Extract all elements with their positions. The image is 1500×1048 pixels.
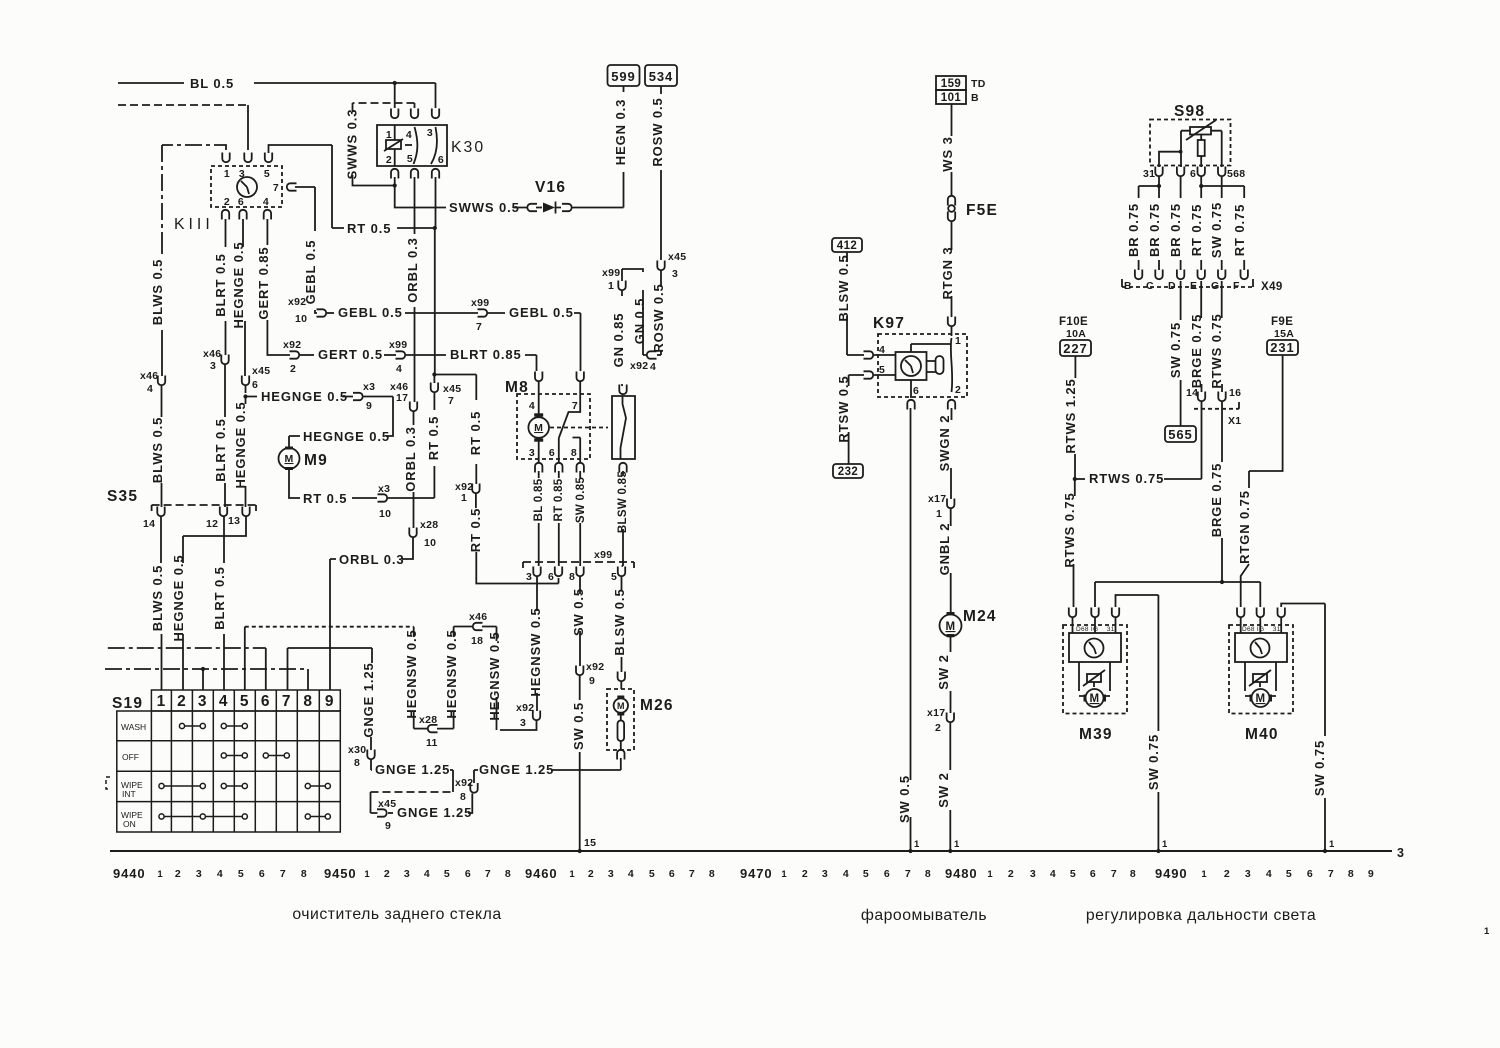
svg-text:5: 5 — [1070, 868, 1076, 880]
svg-text:4: 4 — [147, 383, 153, 395]
svg-text:ORBL 0.3: ORBL 0.3 — [339, 552, 404, 567]
terminal box 565 — [1165, 426, 1196, 442]
svg-text:1: 1 — [781, 869, 787, 880]
svg-text:6: 6 — [238, 196, 244, 208]
K111 pin 1 connector — [222, 153, 229, 163]
connector X92/9 — [576, 666, 583, 676]
wire BL 0.85 — [538, 471, 540, 478]
svg-text:RTWS 0.75: RTWS 0.75 — [1089, 471, 1164, 486]
svg-text:599: 599 — [611, 69, 635, 84]
connector X45/6 — [242, 376, 249, 386]
svg-text:3: 3 — [210, 360, 216, 372]
svg-text:HEGNGE 0.5: HEGNGE 0.5 — [233, 401, 248, 488]
svg-text:16: 16 — [1229, 387, 1241, 399]
svg-text:V16: V16 — [535, 179, 566, 196]
wire K111 pin1 bracket left — [162, 145, 226, 248]
svg-text:568: 568 — [1227, 168, 1245, 180]
svg-text:TD: TD — [971, 78, 986, 90]
svg-text:SW 0.5: SW 0.5 — [897, 775, 912, 823]
svg-text:HEGNSW 0.5: HEGNSW 0.5 — [487, 631, 502, 720]
svg-text:14: 14 — [1186, 387, 1198, 399]
svg-text:4: 4 — [650, 361, 656, 373]
connector X92/10 — [317, 309, 327, 316]
connector X28/11 — [428, 725, 438, 732]
svg-text:GN 0.85: GN 0.85 — [611, 313, 626, 368]
svg-text:SW 0.75: SW 0.75 — [1146, 734, 1161, 790]
M8 bottom pins — [535, 463, 542, 473]
actuator M40 — [1237, 608, 1244, 618]
svg-text:12: 12 — [206, 518, 218, 530]
svg-text:S35: S35 — [107, 488, 138, 505]
svg-text:13: 13 — [228, 515, 240, 527]
connector X92/3 — [533, 711, 540, 721]
connector X45/9 — [388, 812, 393, 814]
wire dashed feed to K111 pin3 — [118, 104, 248, 106]
svg-text:6: 6 — [438, 154, 444, 166]
svg-text:GNGE 1.25: GNGE 1.25 — [375, 762, 450, 777]
wire SW 0.85 — [579, 471, 581, 478]
svg-text:SW 0.75: SW 0.75 — [1168, 322, 1183, 378]
wire SW 0.75 to 565 — [1180, 281, 1182, 320]
svg-text:M: M — [284, 453, 293, 465]
svg-text:8: 8 — [301, 868, 307, 880]
K97 pin 6 bottom — [907, 400, 914, 410]
svg-text:x28: x28 — [420, 519, 438, 531]
K111 pin 3 connector — [244, 153, 251, 163]
svg-text:GNGE 1.25: GNGE 1.25 — [361, 662, 376, 737]
S19 contacts WIPE ON row — [159, 814, 331, 819]
wire SW 0.75 M40 to bus — [1281, 604, 1325, 737]
wire GN 0.85 to M8 park switch — [621, 291, 623, 386]
connector X3/9 — [353, 393, 363, 400]
svg-text:5: 5 — [611, 571, 617, 583]
svg-text:8: 8 — [303, 693, 313, 710]
K111 pin 4 connector — [264, 210, 271, 220]
svg-text:BLSW 0.5: BLSW 0.5 — [612, 588, 627, 655]
wire HEGNSW 0.5 chain col2 — [453, 627, 455, 638]
lamp M26 — [607, 689, 634, 750]
svg-text:x46: x46 — [140, 370, 158, 382]
wire HEGNGE 0.5 column (S19 col2) — [243, 219, 245, 376]
svg-text:C: C — [1146, 280, 1154, 292]
svg-text:3: 3 — [404, 868, 410, 880]
K30 contact arm 4-5 — [414, 127, 418, 164]
svg-text:HEGNSW 0.5: HEGNSW 0.5 — [444, 629, 459, 718]
svg-text:D68 IG 31: D68 IG 31 — [1242, 626, 1281, 633]
connector X1/16 — [1218, 392, 1225, 402]
motor M24 — [940, 615, 962, 637]
svg-text:1: 1 — [1162, 839, 1168, 850]
M8 park switch box — [612, 396, 635, 459]
svg-text:x30: x30 — [348, 744, 366, 756]
svg-text:M: M — [534, 422, 543, 434]
svg-text:8: 8 — [1348, 868, 1354, 880]
svg-text:565: 565 — [1168, 427, 1192, 442]
svg-text:BLSW 0.5: BLSW 0.5 — [836, 254, 851, 321]
node RT junction — [432, 372, 436, 376]
svg-text:SW 2: SW 2 — [936, 654, 951, 689]
wire BLSW 0.5 to M26 — [621, 577, 623, 590]
wire M9 to RT 0.5 — [289, 470, 377, 498]
wire GERT 0.85 from K111 pin4 — [267, 219, 290, 355]
svg-text:8: 8 — [571, 447, 577, 459]
svg-text:534: 534 — [649, 69, 673, 84]
wire BLRT 0.5 column (S19 col4) — [225, 219, 227, 355]
svg-text:M40: M40 — [1245, 726, 1279, 743]
K111 pin 5 connector — [265, 153, 272, 163]
svg-text:фароомыватель: фароомыватель — [861, 907, 987, 924]
svg-text:4: 4 — [263, 196, 269, 208]
svg-text:7: 7 — [273, 182, 279, 194]
svg-text:BLRT 0.85: BLRT 0.85 — [450, 347, 522, 362]
svg-text:3: 3 — [239, 168, 245, 180]
svg-text:8: 8 — [354, 757, 360, 769]
S98 pins — [1155, 167, 1162, 177]
svg-text:M26: M26 — [640, 697, 674, 714]
svg-text:5: 5 — [407, 153, 413, 165]
svg-text:9: 9 — [325, 693, 335, 710]
svg-text:8: 8 — [709, 868, 715, 880]
connector X92/2 — [290, 351, 300, 358]
svg-text:8: 8 — [569, 571, 575, 583]
svg-text:3: 3 — [520, 717, 526, 729]
svg-text:1: 1 — [1484, 926, 1490, 937]
svg-text:3: 3 — [196, 868, 202, 880]
wire S19 col7 to GNGE — [288, 648, 373, 690]
svg-text:x99: x99 — [602, 267, 620, 279]
svg-text:4: 4 — [219, 693, 229, 710]
svg-text:BLRT 0.5: BLRT 0.5 — [213, 418, 228, 482]
K97 coil with clock — [896, 352, 927, 380]
svg-text:SW 0.5: SW 0.5 — [571, 702, 586, 750]
K30 coil — [384, 125, 403, 166]
wire SWGN 2 — [951, 408, 953, 420]
connector X45/3 — [657, 261, 664, 271]
M8 coupling dashes — [550, 427, 608, 429]
connector X99 row — [523, 561, 634, 563]
svg-text:6: 6 — [548, 571, 554, 583]
svg-text:RTGN 3: RTGN 3 — [940, 246, 955, 299]
svg-text:1: 1 — [955, 335, 961, 347]
svg-text:4: 4 — [1266, 868, 1272, 880]
svg-text:BL 0.85: BL 0.85 — [533, 478, 545, 521]
svg-text:5: 5 — [1286, 868, 1292, 880]
svg-text:HEGN 0.3: HEGN 0.3 — [613, 99, 628, 165]
svg-text:1: 1 — [157, 869, 163, 880]
svg-text:2: 2 — [386, 154, 392, 166]
svg-text:SWWS 0.3: SWWS 0.3 — [345, 109, 360, 180]
svg-text:6: 6 — [1090, 868, 1096, 880]
svg-text:RTWS 0.75: RTWS 0.75 — [1062, 492, 1077, 567]
svg-text:M39: M39 — [1079, 726, 1113, 743]
svg-text:GEBL 0.5: GEBL 0.5 — [509, 305, 574, 320]
connector X45/7 — [433, 393, 435, 410]
svg-text:GEBL 0.5: GEBL 0.5 — [338, 305, 403, 320]
svg-text:F9E: F9E — [1271, 316, 1293, 328]
svg-text:RT 0.5: RT 0.5 — [303, 491, 347, 506]
K111 pin 6 connector — [239, 210, 246, 220]
svg-text:3: 3 — [608, 868, 614, 880]
wire RT 0.5 branch to X99/6 — [434, 375, 476, 401]
svg-text:X1: X1 — [1228, 415, 1241, 427]
svg-text:2: 2 — [1008, 868, 1014, 880]
svg-text:BL 0.5: BL 0.5 — [190, 76, 234, 91]
wire 231 to RTGN — [1249, 355, 1283, 488]
svg-text:F5E: F5E — [966, 202, 998, 219]
svg-text:ORBL 0.3: ORBL 0.3 — [405, 237, 420, 302]
svg-text:6: 6 — [259, 868, 265, 880]
svg-text:x46: x46 — [469, 611, 487, 623]
connector X46/4 — [158, 376, 165, 386]
svg-text:3: 3 — [529, 447, 535, 459]
svg-text:7: 7 — [476, 321, 482, 333]
svg-text:3: 3 — [1245, 868, 1251, 880]
M8 contact 8 — [573, 438, 581, 463]
svg-text:8: 8 — [925, 868, 931, 880]
motor M9 — [279, 448, 300, 469]
fuse F5E — [948, 196, 955, 206]
svg-text:M: M — [1256, 693, 1266, 705]
svg-text:6: 6 — [669, 868, 675, 880]
connector X28/10 — [413, 492, 415, 528]
svg-text:3: 3 — [1030, 868, 1036, 880]
K30 pin connectors bottom — [391, 169, 398, 179]
terminal box 231 — [1267, 340, 1298, 355]
connector X99/1 — [621, 269, 623, 281]
svg-text:2: 2 — [290, 363, 296, 375]
svg-text:3: 3 — [822, 868, 828, 880]
wire GEBL 0.5 from K111 pin7 — [295, 187, 317, 313]
svg-text:9470: 9470 — [740, 866, 773, 881]
terminal box 534 — [645, 65, 677, 86]
svg-text:5: 5 — [240, 693, 250, 710]
svg-text:6: 6 — [1190, 168, 1196, 180]
svg-text:WS 3: WS 3 — [940, 136, 955, 171]
svg-text:1: 1 — [569, 869, 575, 880]
connector X49 row — [1135, 270, 1142, 280]
actuator M39 — [1069, 608, 1076, 618]
wire BL corner to K30 pin3 — [435, 83, 437, 108]
wire HEGNGE below S35 jog — [183, 517, 246, 563]
svg-text:3: 3 — [427, 127, 433, 139]
wire SW 2 — [950, 637, 952, 652]
svg-text:GEBL 0.5: GEBL 0.5 — [303, 240, 318, 305]
svg-text:1: 1 — [954, 839, 960, 850]
svg-text:M: M — [1090, 693, 1100, 705]
wire BL 0.5 top bus — [118, 82, 436, 84]
svg-text:B: B — [971, 92, 979, 104]
svg-text:8: 8 — [505, 868, 511, 880]
M8 motor symbol — [538, 382, 540, 462]
svg-text:x92: x92 — [586, 661, 604, 673]
svg-text:SW 0.75: SW 0.75 — [1312, 740, 1327, 796]
connector X99/4 — [396, 351, 406, 358]
svg-text:3: 3 — [672, 268, 678, 280]
svg-text:2: 2 — [175, 868, 181, 880]
svg-text:5: 5 — [264, 168, 270, 180]
wire ORBL 0.3 column (K30 pin5) — [414, 177, 416, 402]
wire BLRT below S35 — [223, 517, 225, 563]
K97 internal wires — [911, 344, 952, 352]
S19 contacts OFF row — [221, 753, 289, 758]
svg-text:31: 31 — [1143, 168, 1155, 180]
svg-text:4: 4 — [424, 868, 430, 880]
svg-text:RT 0.5: RT 0.5 — [468, 411, 483, 455]
svg-text:4: 4 — [529, 400, 535, 412]
K111 pin 2 connector — [222, 210, 229, 220]
wire line B to S19 col8 — [105, 668, 308, 670]
svg-text:7: 7 — [448, 395, 454, 407]
svg-text:x92: x92 — [455, 777, 473, 789]
svg-text:BRGE 0.75: BRGE 0.75 — [1189, 314, 1204, 389]
svg-text:227: 227 — [1063, 341, 1087, 356]
svg-text:8: 8 — [460, 791, 466, 803]
svg-text:RT 0.75: RT 0.75 — [1232, 204, 1247, 257]
connector X3/10 — [378, 494, 388, 501]
svg-text:9440: 9440 — [113, 866, 146, 881]
svg-text:x99: x99 — [471, 297, 489, 309]
wire BLWS 0.5 column (S19 col1) — [161, 248, 163, 376]
svg-text:x28: x28 — [419, 714, 437, 726]
wire GN 0.5 — [622, 269, 643, 352]
svg-text:x99: x99 — [389, 339, 407, 351]
connector X46/17 — [410, 402, 417, 412]
svg-text:K97: K97 — [873, 315, 905, 332]
svg-text:7: 7 — [572, 400, 578, 412]
svg-text:RT 0.5: RT 0.5 — [347, 221, 391, 236]
terminal box 227 — [1060, 340, 1091, 356]
wire HEGNSW 0.5 chain col1 — [413, 712, 415, 729]
terminal box 599 — [608, 65, 640, 86]
svg-text:2: 2 — [177, 693, 187, 710]
svg-text:7: 7 — [1111, 868, 1117, 880]
svg-text:4: 4 — [843, 868, 849, 880]
svg-text:G: G — [1211, 280, 1219, 292]
connector X30/8 — [371, 760, 372, 770]
svg-text:HEGNSW 0.5: HEGNSW 0.5 — [528, 607, 543, 696]
K97 aux element — [936, 356, 944, 374]
svg-text:GN 0.5: GN 0.5 — [632, 298, 647, 345]
wire BLSW 0.5 — [846, 252, 848, 262]
svg-text:K30: K30 — [451, 139, 485, 156]
svg-text:ON: ON — [123, 819, 136, 829]
wire RTWS 0.75 to M39 — [1074, 479, 1076, 496]
svg-text:9490: 9490 — [1155, 866, 1188, 881]
svg-text:HEGNGE 0.5: HEGNGE 0.5 — [171, 554, 186, 641]
svg-text:KIII: KIII — [174, 216, 214, 233]
svg-text:2: 2 — [1224, 868, 1230, 880]
svg-text:SW 0.75: SW 0.75 — [1209, 202, 1224, 258]
svg-text:231: 231 — [1270, 340, 1294, 355]
svg-text:1: 1 — [936, 508, 942, 520]
wire BR 0.75 col C — [1158, 186, 1160, 198]
svg-text:3: 3 — [526, 571, 532, 583]
svg-text:5: 5 — [444, 868, 450, 880]
wire BRGE 0.75 to X1/14 — [1200, 281, 1202, 318]
svg-text:4: 4 — [396, 363, 402, 375]
svg-text:1: 1 — [224, 168, 230, 180]
svg-text:RT 0.5: RT 0.5 — [468, 508, 483, 552]
wire K30 pin2 down — [395, 177, 446, 208]
svg-text:5: 5 — [649, 868, 655, 880]
wire BL to K30 pin1 — [394, 83, 396, 108]
S19 contacts WIPE INT row — [159, 783, 331, 788]
svg-text:HEGNSW 0.5: HEGNSW 0.5 — [404, 629, 419, 718]
wire WS 3 — [951, 104, 953, 136]
node BL/K30-1 junction — [393, 81, 397, 85]
svg-text:BLWS 0.5: BLWS 0.5 — [150, 259, 165, 325]
svg-text:E: E — [1190, 280, 1197, 292]
svg-text:x46: x46 — [203, 348, 221, 360]
svg-text:10A: 10A — [1066, 328, 1086, 340]
svg-text:HEGNGE 0.5: HEGNGE 0.5 — [261, 389, 348, 404]
svg-text:x45: x45 — [378, 798, 396, 810]
connector X92/1 — [472, 484, 479, 494]
ground bus line 31 — [110, 850, 1392, 852]
svg-text:412: 412 — [837, 240, 857, 252]
svg-text:D: D — [1168, 280, 1176, 292]
svg-text:BLRT 0.5: BLRT 0.5 — [212, 566, 227, 630]
terminal box 159 TD — [936, 76, 966, 90]
wire SW 0.75 M39 to bus — [1116, 595, 1159, 731]
svg-text:6: 6 — [252, 379, 258, 391]
svg-text:2: 2 — [588, 868, 594, 880]
svg-text:2: 2 — [935, 722, 941, 734]
svg-text:ORBL 0.3: ORBL 0.3 — [403, 426, 418, 491]
ruler row 9450 — [324, 866, 511, 881]
wire RT 0.85 — [558, 471, 560, 478]
wire RTWS 0.75 horizontal — [1075, 478, 1085, 480]
svg-text:BR 0.75: BR 0.75 — [1168, 203, 1183, 257]
svg-text:4: 4 — [628, 868, 634, 880]
wire HEGNGE 0.5 horizontal to X3/9 — [246, 396, 354, 398]
svg-text:9460: 9460 — [525, 866, 558, 881]
svg-text:SW 2: SW 2 — [936, 772, 951, 807]
wire SW 0.5 to bus terminal 15 — [579, 577, 581, 594]
svg-text:1: 1 — [914, 839, 920, 850]
wire K111 pin5 to RT 0.5 — [269, 145, 333, 228]
wire ROSW 0.5 from 534 — [660, 86, 662, 260]
K97 pin 2 bottom — [948, 400, 955, 410]
svg-text:11: 11 — [426, 737, 438, 749]
svg-text:9: 9 — [1368, 868, 1374, 880]
svg-text:x45: x45 — [668, 251, 686, 263]
svg-text:BLWS 0.5: BLWS 0.5 — [150, 417, 165, 483]
svg-text:9: 9 — [589, 675, 595, 687]
ruler row 9490 — [1155, 866, 1374, 881]
svg-text:M: M — [946, 621, 956, 633]
svg-text:9: 9 — [366, 400, 372, 412]
wire BLWS below S35 — [160, 517, 162, 563]
svg-text:X49: X49 — [1261, 281, 1283, 293]
wire line A to S19 col6 — [108, 647, 266, 649]
wire RTWS 1.25 — [1074, 356, 1076, 378]
svg-text:6: 6 — [1307, 868, 1313, 880]
S98 internal wires — [1159, 131, 1222, 167]
connector X46/18 — [473, 623, 483, 630]
svg-text:232: 232 — [838, 466, 858, 478]
svg-text:4: 4 — [1050, 868, 1056, 880]
svg-text:9450: 9450 — [324, 866, 357, 881]
svg-text:SWWS 0.5: SWWS 0.5 — [449, 200, 520, 215]
svg-text:2: 2 — [384, 868, 390, 880]
svg-text:S19: S19 — [112, 695, 143, 712]
svg-text:HEGNGE 0.5: HEGNGE 0.5 — [303, 429, 390, 444]
svg-text:3: 3 — [1397, 846, 1405, 860]
wire HEGN 0.3 riser to 599 — [623, 86, 625, 208]
ruler row 9460 — [525, 866, 715, 881]
connector X1/14 — [1198, 392, 1205, 402]
